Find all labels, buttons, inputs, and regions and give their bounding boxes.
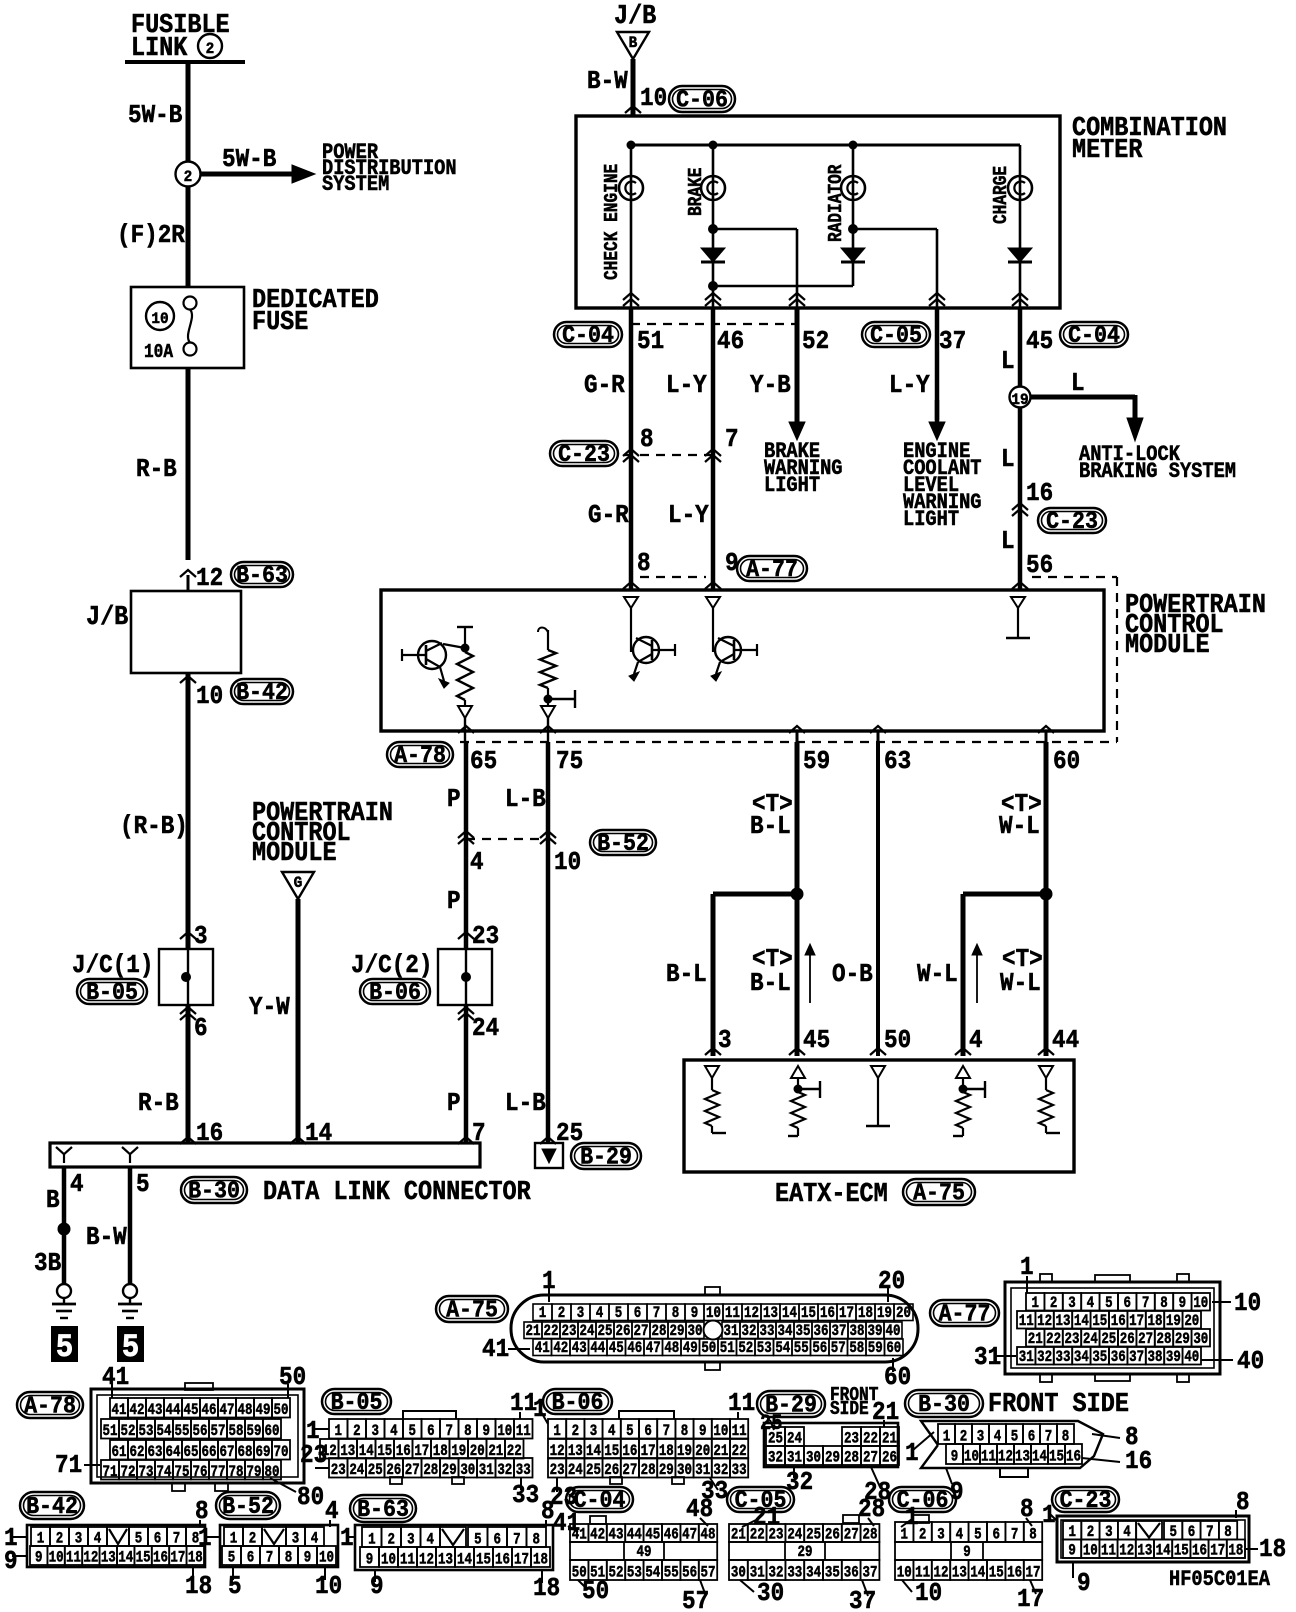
svg-text:4: 4 — [70, 1171, 84, 1200]
svg-text:60: 60 — [265, 1423, 280, 1441]
svg-text:13: 13 — [1137, 1542, 1152, 1560]
svg-text:R-B: R-B — [136, 456, 177, 485]
PCM pin 8 input triangle — [624, 597, 638, 608]
svg-text:46: 46 — [627, 1340, 642, 1358]
svg-text:18: 18 — [533, 1551, 548, 1569]
svg-text:26: 26 — [1120, 1331, 1135, 1349]
svg-text:60: 60 — [884, 1364, 911, 1393]
ground ref box 5 — [117, 1326, 144, 1362]
svg-text:18: 18 — [533, 1575, 560, 1604]
wire Y-W — [296, 899, 301, 1143]
svg-text:51: 51 — [103, 1423, 118, 1441]
svg-text:16: 16 — [1026, 480, 1053, 509]
svg-text:METER: METER — [1072, 135, 1143, 166]
svg-text:37: 37 — [849, 1588, 876, 1612]
svg-text:12: 12 — [419, 1551, 434, 1569]
wire 5W-B main vertical — [186, 62, 191, 287]
svg-text:FRONT SIDE: FRONT SIDE — [988, 1389, 1129, 1420]
svg-text:O-B: O-B — [832, 961, 873, 990]
svg-text:25: 25 — [1101, 1331, 1116, 1349]
wire G-R 51 — [629, 308, 634, 444]
svg-text:78: 78 — [229, 1464, 244, 1482]
svg-text:62: 62 — [130, 1444, 145, 1462]
svg-text:8: 8 — [672, 1305, 679, 1323]
svg-text:5: 5 — [626, 1423, 633, 1441]
svg-text:9: 9 — [699, 1423, 706, 1441]
J/C(1) pin 6 — [180, 1007, 196, 1014]
svg-text:33: 33 — [732, 1462, 747, 1480]
svg-text:54: 54 — [157, 1423, 172, 1441]
svg-text:50: 50 — [279, 1364, 306, 1393]
svg-text:A-75: A-75 — [446, 1297, 498, 1324]
svg-text:4: 4 — [390, 1423, 398, 1441]
svg-text:9: 9 — [1179, 1295, 1186, 1313]
diode join wire — [708, 281, 718, 291]
svg-text:C-04: C-04 — [562, 322, 614, 349]
diode radiator — [841, 248, 865, 262]
svg-text:73: 73 — [139, 1464, 154, 1482]
svg-text:30: 30 — [806, 1449, 821, 1467]
svg-text:2: 2 — [558, 1305, 565, 1323]
svg-text:21: 21 — [526, 1323, 541, 1341]
svg-text:C-23: C-23 — [1046, 508, 1098, 535]
svg-text:20: 20 — [878, 1268, 905, 1297]
svg-text:32: 32 — [497, 1462, 512, 1480]
svg-text:36: 36 — [844, 1564, 859, 1582]
svg-text:60: 60 — [886, 1340, 901, 1358]
splice 19 to ABS — [1010, 387, 1031, 408]
svg-text:28: 28 — [641, 1462, 656, 1480]
svg-text:10: 10 — [554, 849, 581, 878]
svg-text:B: B — [629, 33, 638, 52]
svg-text:4: 4 — [596, 1305, 604, 1323]
svg-text:71: 71 — [103, 1464, 118, 1482]
svg-text:65: 65 — [184, 1444, 199, 1462]
svg-text:14: 14 — [1156, 1542, 1171, 1560]
svg-text:47: 47 — [220, 1402, 235, 1420]
svg-text:49: 49 — [683, 1340, 698, 1358]
svg-text:24: 24 — [580, 1323, 595, 1341]
svg-text:17: 17 — [514, 1551, 529, 1569]
svg-text:8: 8 — [1160, 1295, 1167, 1313]
svg-text:B-L: B-L — [666, 961, 707, 990]
svg-text:41: 41 — [112, 1402, 127, 1420]
svg-text:31: 31 — [787, 1449, 802, 1467]
svg-text:9: 9 — [691, 1305, 698, 1323]
svg-text:27: 27 — [1138, 1331, 1153, 1349]
svg-text:1: 1 — [553, 1423, 560, 1441]
svg-text:34: 34 — [806, 1564, 821, 1582]
svg-text:54: 54 — [775, 1340, 790, 1358]
svg-text:1: 1 — [340, 1525, 354, 1554]
svg-text:4: 4 — [969, 1027, 983, 1056]
svg-text:30: 30 — [731, 1564, 746, 1582]
svg-text:16: 16 — [820, 1305, 835, 1323]
svg-text:MODULE: MODULE — [252, 838, 337, 869]
svg-text:L-B: L-B — [505, 1090, 546, 1119]
svg-text:26: 26 — [882, 1449, 897, 1467]
svg-text:LIGHT: LIGHT — [764, 474, 820, 499]
svg-text:16: 16 — [1125, 1448, 1152, 1477]
connector A-77 pinout — [930, 1300, 999, 1326]
J/C(2) pin 24 — [458, 1007, 474, 1014]
svg-text:6: 6 — [1123, 1295, 1130, 1313]
svg-text:18: 18 — [185, 1573, 212, 1602]
svg-text:B-52: B-52 — [222, 1493, 274, 1520]
svg-text:A-77: A-77 — [939, 1301, 991, 1328]
svg-text:7: 7 — [1142, 1295, 1149, 1313]
svg-text:9: 9 — [963, 1544, 970, 1562]
ground G2 — [123, 1284, 137, 1298]
svg-text:6: 6 — [644, 1423, 651, 1441]
arrow to power distribution system — [200, 172, 292, 177]
svg-text:32: 32 — [742, 1323, 757, 1341]
svg-text:14: 14 — [118, 1549, 133, 1567]
connector row C-04 / C-05 labels — [554, 322, 622, 347]
svg-text:29: 29 — [825, 1449, 840, 1467]
svg-text:43: 43 — [572, 1340, 587, 1358]
svg-text:LINK: LINK — [131, 33, 188, 64]
svg-text:16: 16 — [1111, 1313, 1126, 1331]
svg-text:4: 4 — [1087, 1295, 1095, 1313]
svg-text:56: 56 — [812, 1340, 827, 1358]
svg-text:3: 3 — [194, 923, 208, 952]
svg-text:31: 31 — [479, 1462, 494, 1480]
PCM pin 9 input triangle — [706, 597, 720, 608]
svg-text:16: 16 — [153, 1549, 168, 1567]
svg-text:10: 10 — [640, 85, 667, 114]
dashed connector line B-52 — [458, 831, 474, 838]
svg-text:15: 15 — [989, 1564, 1004, 1582]
svg-text:5W-B: 5W-B — [222, 146, 277, 175]
svg-text:3: 3 — [718, 1027, 732, 1056]
svg-text:B-05: B-05 — [331, 1389, 383, 1416]
svg-text:12: 12 — [1037, 1313, 1052, 1331]
svg-text:29: 29 — [1175, 1331, 1190, 1349]
svg-text:C-04: C-04 — [574, 1487, 626, 1514]
svg-text:7: 7 — [472, 1120, 486, 1149]
svg-text:8: 8 — [640, 426, 654, 455]
svg-text:3: 3 — [371, 1423, 378, 1441]
svg-text:14: 14 — [457, 1551, 472, 1569]
svg-text:37: 37 — [1129, 1349, 1144, 1367]
svg-text:8: 8 — [1236, 1489, 1250, 1518]
svg-text:53: 53 — [757, 1340, 772, 1358]
PCM transistor Q3 — [715, 637, 741, 663]
wire L-B from pin 75 — [546, 742, 551, 1143]
svg-text:(R-B): (R-B) — [120, 813, 188, 842]
svg-text:B-L: B-L — [750, 970, 791, 999]
svg-text:G-R: G-R — [584, 372, 625, 401]
PCM dashed connector outline — [640, 576, 706, 578]
svg-text:10: 10 — [497, 1423, 512, 1441]
svg-text:28: 28 — [652, 1323, 667, 1341]
svg-text:B-06: B-06 — [369, 979, 421, 1006]
svg-text:17: 17 — [170, 1549, 185, 1567]
svg-text:1: 1 — [198, 1525, 212, 1554]
EATX pin 3 internals — [705, 1066, 719, 1078]
svg-text:15: 15 — [801, 1305, 816, 1323]
svg-text:11: 11 — [728, 1390, 755, 1419]
svg-text:59: 59 — [247, 1423, 262, 1441]
svg-text:RADIATOR: RADIATOR — [826, 164, 848, 242]
svg-text:4: 4 — [325, 1498, 339, 1527]
svg-text:49: 49 — [637, 1544, 652, 1562]
svg-text:C-06: C-06 — [676, 87, 728, 114]
wire P from pin 65 — [464, 742, 469, 949]
svg-text:15: 15 — [1049, 1448, 1064, 1466]
wire R-B — [186, 368, 191, 560]
svg-text:4: 4 — [608, 1423, 616, 1441]
svg-text:70: 70 — [274, 1444, 289, 1462]
svg-text:18: 18 — [1228, 1542, 1243, 1560]
svg-text:27: 27 — [405, 1462, 420, 1480]
svg-text:9: 9 — [482, 1423, 489, 1441]
svg-text:57: 57 — [701, 1564, 716, 1582]
svg-text:A-75: A-75 — [913, 1180, 965, 1207]
svg-text:13: 13 — [1056, 1313, 1071, 1331]
svg-text:B-30: B-30 — [918, 1391, 970, 1418]
svg-text:2: 2 — [1050, 1295, 1057, 1313]
svg-text:9: 9 — [1068, 1542, 1075, 1560]
svg-text:7: 7 — [445, 1423, 452, 1441]
svg-text:49: 49 — [256, 1402, 271, 1420]
svg-text:33: 33 — [787, 1564, 802, 1582]
svg-text:10: 10 — [49, 1549, 64, 1567]
data link connector B-30 — [50, 1143, 480, 1167]
svg-text:30: 30 — [1193, 1331, 1208, 1349]
svg-text:12: 12 — [1119, 1542, 1134, 1560]
connector A-78 pinout — [17, 1392, 83, 1418]
svg-text:25: 25 — [368, 1462, 383, 1480]
svg-text:4: 4 — [470, 849, 484, 878]
connector B-42 pin 10 crossing — [180, 676, 196, 683]
svg-text:31: 31 — [974, 1344, 1001, 1373]
PCM transistor Q1 — [418, 641, 446, 669]
svg-text:5: 5 — [56, 1331, 73, 1367]
svg-text:32: 32 — [768, 1449, 783, 1467]
ground G1 — [57, 1284, 71, 1298]
svg-text:15: 15 — [136, 1549, 151, 1567]
svg-text:50: 50 — [884, 1027, 911, 1056]
wire L-Y to pin 9 — [711, 444, 716, 589]
svg-text:B-42: B-42 — [26, 1493, 78, 1520]
svg-text:44: 44 — [590, 1340, 605, 1358]
svg-text:12: 12 — [744, 1305, 759, 1323]
svg-text:68: 68 — [238, 1444, 253, 1462]
svg-text:55: 55 — [664, 1564, 679, 1582]
svg-text:17: 17 — [1017, 1586, 1044, 1612]
svg-text:69: 69 — [256, 1444, 271, 1462]
svg-text:MODULE: MODULE — [1125, 630, 1210, 661]
svg-text:22: 22 — [544, 1323, 559, 1341]
svg-text:15: 15 — [476, 1551, 491, 1569]
svg-text:DATA LINK CONNECTOR: DATA LINK CONNECTOR — [263, 1177, 531, 1208]
svg-text:48: 48 — [238, 1402, 253, 1420]
svg-text:1: 1 — [334, 1423, 341, 1441]
meter bottom crossings — [623, 293, 639, 300]
svg-text:50: 50 — [274, 1402, 289, 1420]
svg-text:22: 22 — [1046, 1331, 1061, 1349]
fusible link bus bar — [125, 60, 245, 64]
radiator branch to pin 37 — [848, 224, 858, 234]
svg-text:79: 79 — [247, 1464, 262, 1482]
svg-text:23: 23 — [550, 1462, 565, 1480]
svg-text:38: 38 — [1148, 1349, 1163, 1367]
svg-text:9: 9 — [951, 1448, 958, 1466]
wire W-L branch to pin 4 — [961, 894, 966, 1056]
svg-text:7: 7 — [725, 426, 739, 455]
svg-text:52: 52 — [121, 1423, 136, 1441]
svg-text:44: 44 — [1052, 1027, 1079, 1056]
svg-text:13: 13 — [101, 1549, 116, 1567]
connector B-63 pinout — [350, 1495, 416, 1522]
svg-text:34: 34 — [1074, 1349, 1089, 1367]
svg-text:FUSE: FUSE — [252, 307, 308, 338]
svg-text:8: 8 — [195, 1498, 209, 1527]
svg-text:11: 11 — [725, 1305, 740, 1323]
svg-text:B-63: B-63 — [357, 1496, 409, 1523]
brake branch to pin 52 — [708, 224, 718, 234]
svg-text:23: 23 — [300, 1442, 327, 1471]
svg-text:3: 3 — [590, 1423, 597, 1441]
svg-text:1: 1 — [905, 1440, 919, 1469]
svg-text:38: 38 — [850, 1323, 865, 1341]
svg-text:32: 32 — [1037, 1349, 1052, 1367]
diode charge — [1008, 248, 1032, 262]
svg-text:40: 40 — [1184, 1349, 1199, 1367]
svg-text:37: 37 — [863, 1564, 878, 1582]
svg-text:65: 65 — [470, 748, 497, 777]
svg-text:40: 40 — [1237, 1348, 1264, 1377]
svg-text:46: 46 — [202, 1402, 217, 1420]
svg-text:B-06: B-06 — [552, 1389, 604, 1416]
wire L-Y 46 — [711, 308, 716, 444]
PCM pin 56 input symbol — [1011, 597, 1025, 608]
svg-text:16: 16 — [1192, 1542, 1207, 1560]
svg-text:10: 10 — [1083, 1542, 1098, 1560]
connector B-30 pinout — [905, 1390, 983, 1417]
svg-text:11: 11 — [1019, 1313, 1034, 1331]
svg-text:B-52: B-52 — [597, 830, 649, 857]
svg-text:18: 18 — [1259, 1536, 1286, 1565]
svg-text:35: 35 — [796, 1323, 811, 1341]
svg-text:13: 13 — [952, 1564, 967, 1582]
svg-text:30: 30 — [757, 1580, 784, 1609]
svg-text:16: 16 — [1066, 1448, 1081, 1466]
svg-text:39: 39 — [868, 1323, 883, 1341]
svg-text:A-78: A-78 — [24, 1393, 76, 1420]
svg-text:20: 20 — [1184, 1313, 1199, 1331]
connector C-04 pinout — [566, 1487, 633, 1512]
svg-text:B-29: B-29 — [580, 1144, 632, 1171]
splice node 2 — [176, 162, 201, 187]
svg-text:2: 2 — [184, 167, 193, 186]
svg-text:33: 33 — [1056, 1349, 1071, 1367]
PCM bottom pin crossings — [458, 726, 474, 733]
svg-text:B-L: B-L — [750, 813, 791, 842]
svg-text:34: 34 — [778, 1323, 793, 1341]
connector B-29 pinout — [757, 1391, 825, 1417]
svg-text:6: 6 — [427, 1423, 434, 1441]
svg-text:52: 52 — [738, 1340, 753, 1358]
svg-text:45: 45 — [803, 1027, 830, 1056]
svg-text:2: 2 — [353, 1423, 360, 1441]
dashed connector line C-23 — [624, 454, 713, 456]
svg-text:5: 5 — [228, 1549, 235, 1567]
svg-text:17: 17 — [839, 1305, 854, 1323]
svg-text:2: 2 — [206, 39, 215, 58]
wire (R-B) — [186, 673, 191, 949]
svg-text:19: 19 — [877, 1305, 892, 1323]
svg-text:27: 27 — [622, 1462, 637, 1480]
svg-text:21: 21 — [1028, 1331, 1043, 1349]
wire L to pin 56 — [1018, 408, 1023, 589]
svg-text:Y-B: Y-B — [750, 372, 791, 401]
wire B-L from pin 59 — [795, 742, 800, 1056]
svg-text:3B: 3B — [34, 1250, 61, 1279]
svg-text:67: 67 — [220, 1444, 235, 1462]
svg-text:9: 9 — [1077, 1570, 1091, 1599]
svg-text:15: 15 — [1092, 1313, 1107, 1331]
svg-text:C-23: C-23 — [1060, 1487, 1112, 1514]
svg-text:16: 16 — [495, 1551, 510, 1569]
svg-text:11: 11 — [400, 1551, 415, 1569]
wire W-L from pin 60 — [1044, 742, 1049, 1056]
svg-text:B-30: B-30 — [188, 1178, 240, 1205]
svg-text:L-Y: L-Y — [668, 502, 709, 531]
svg-text:44: 44 — [166, 1402, 181, 1420]
svg-text:L: L — [1071, 370, 1085, 399]
wire L-Y 37 coolant warning light — [935, 308, 940, 420]
svg-text:17: 17 — [1210, 1542, 1225, 1560]
svg-text:57: 57 — [831, 1340, 846, 1358]
svg-text:7: 7 — [663, 1423, 670, 1441]
svg-text:10: 10 — [915, 1580, 942, 1609]
svg-text:16: 16 — [1007, 1564, 1022, 1582]
svg-text:23: 23 — [1065, 1331, 1080, 1349]
svg-text:BRAKING SYSTEM: BRAKING SYSTEM — [1079, 460, 1236, 485]
svg-text:50: 50 — [582, 1578, 609, 1607]
svg-text:75: 75 — [556, 748, 583, 777]
connector C-06 pinout — [889, 1487, 956, 1512]
svg-text:51: 51 — [637, 328, 664, 357]
svg-text:12: 12 — [998, 1448, 1013, 1466]
svg-text:10A: 10A — [144, 342, 173, 364]
svg-text:W-L: W-L — [1000, 970, 1041, 999]
svg-text:39: 39 — [1166, 1349, 1181, 1367]
wire R-B lower — [186, 1005, 191, 1143]
connector C-05 pinout — [727, 1487, 794, 1512]
svg-text:29: 29 — [798, 1544, 813, 1562]
svg-text:26: 26 — [616, 1323, 631, 1341]
svg-text:5: 5 — [228, 1573, 242, 1602]
svg-text:74: 74 — [157, 1464, 172, 1482]
svg-text:30: 30 — [688, 1323, 703, 1341]
svg-text:27: 27 — [863, 1449, 878, 1467]
svg-text:10: 10 — [897, 1564, 912, 1582]
svg-text:75: 75 — [175, 1464, 190, 1482]
svg-text:50: 50 — [701, 1340, 716, 1358]
connector B-42 pinout — [20, 1492, 84, 1519]
svg-text:24: 24 — [349, 1462, 364, 1480]
diode brake — [701, 248, 725, 262]
svg-text:11: 11 — [516, 1423, 531, 1441]
svg-text:36: 36 — [814, 1323, 829, 1341]
svg-text:19: 19 — [1166, 1313, 1181, 1331]
svg-text:15: 15 — [1174, 1542, 1189, 1560]
svg-text:P: P — [447, 786, 461, 815]
